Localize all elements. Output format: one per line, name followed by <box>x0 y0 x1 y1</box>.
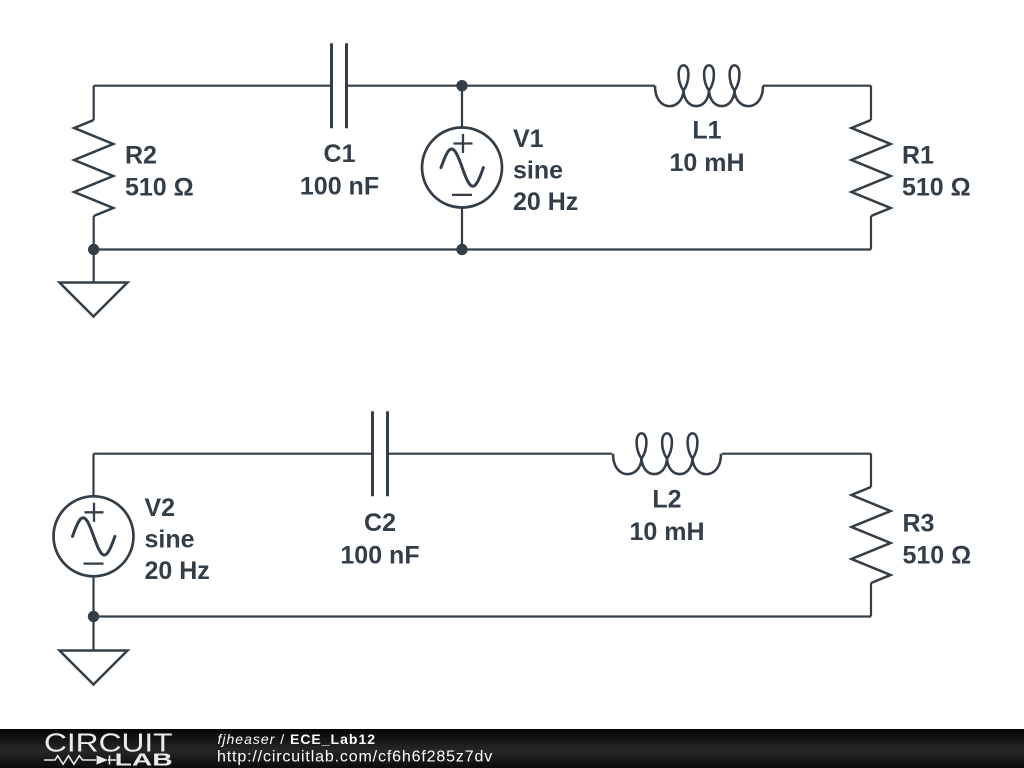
svg-text:V2: V2 <box>145 494 176 522</box>
node dot at V1 bottom <box>456 244 467 255</box>
ground symbol top circuit <box>60 250 128 317</box>
voltage source V2 <box>54 454 134 617</box>
svg-text:100 nF: 100 nF <box>340 542 419 570</box>
footer bar <box>0 729 1024 768</box>
svg-text:510 Ω: 510 Ω <box>902 174 971 202</box>
bottom wire of circuit 2 <box>94 615 872 617</box>
resistor R2 <box>74 86 113 250</box>
capacitor C2 <box>373 411 388 496</box>
svg-text:R1: R1 <box>902 142 934 170</box>
svg-text:20 Hz: 20 Hz <box>145 557 210 585</box>
resistor R3 <box>852 454 891 617</box>
svg-text:R3: R3 <box>903 510 935 538</box>
logo diode <box>97 755 109 764</box>
svg-text:R2: R2 <box>125 142 157 170</box>
ground symbol circuit 2 <box>60 617 128 685</box>
svg-text:100 nF: 100 nF <box>300 173 379 201</box>
svg-text:sine: sine <box>513 157 563 185</box>
wire node A to L1 <box>462 85 655 87</box>
voltage source V1 <box>422 86 502 250</box>
svg-text:20 Hz: 20 Hz <box>513 188 578 216</box>
wire top-left horizontal segment (node to C1) <box>94 85 332 87</box>
node dot at V1 top <box>456 80 467 91</box>
svg-text:C1: C1 <box>324 140 356 168</box>
logo resistor-diode squiggle <box>44 756 96 764</box>
capacitor C1 <box>332 43 347 128</box>
node dot at ground junction <box>88 244 99 255</box>
bottom wire of top circuit <box>94 248 871 250</box>
svg-text:510 Ω: 510 Ω <box>903 542 972 570</box>
wire L1 to top-right corner <box>763 85 871 87</box>
svg-text:10 mH: 10 mH <box>629 518 704 546</box>
svg-text:C2: C2 <box>364 509 396 537</box>
svg-text:L2: L2 <box>652 486 681 514</box>
svg-text:http://circuitlab.com/cf6h6f28: http://circuitlab.com/cf6h6f285z7dv <box>217 748 493 765</box>
inductor L2 <box>613 433 721 474</box>
wire V2 top to C2 <box>94 453 373 455</box>
resistor R1 <box>852 86 891 250</box>
node dot at V2 bottom / ground junction <box>88 611 99 622</box>
inductor L1 <box>655 65 763 106</box>
svg-text:V1: V1 <box>513 125 544 153</box>
svg-text:L1: L1 <box>692 117 721 145</box>
svg-text:sine: sine <box>145 526 195 554</box>
svg-text:LAB: LAB <box>115 750 173 768</box>
wire C1 to node A <box>347 85 463 87</box>
svg-text:fjheaser / ECE_Lab12: fjheaser / ECE_Lab12 <box>218 731 377 747</box>
svg-text:510 Ω: 510 Ω <box>125 174 194 202</box>
wire C2 to L2 <box>388 453 613 455</box>
wire L2 to top-right corner of circuit 2 <box>722 453 871 455</box>
svg-text:10 mH: 10 mH <box>669 149 744 177</box>
